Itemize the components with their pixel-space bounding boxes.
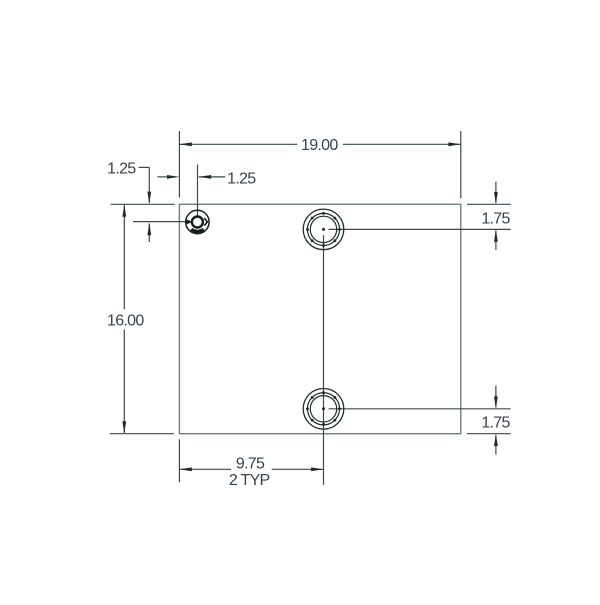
svg-text:1.75: 1.75	[481, 415, 510, 432]
svg-text:16.00: 16.00	[107, 312, 144, 329]
svg-text:19.00: 19.00	[301, 137, 338, 154]
svg-text:1.25: 1.25	[107, 160, 136, 177]
svg-text:2 TYP: 2 TYP	[229, 472, 270, 489]
svg-text:9.75: 9.75	[236, 456, 265, 473]
svg-text:1.25: 1.25	[227, 171, 256, 188]
svg-text:1.75: 1.75	[481, 210, 510, 227]
